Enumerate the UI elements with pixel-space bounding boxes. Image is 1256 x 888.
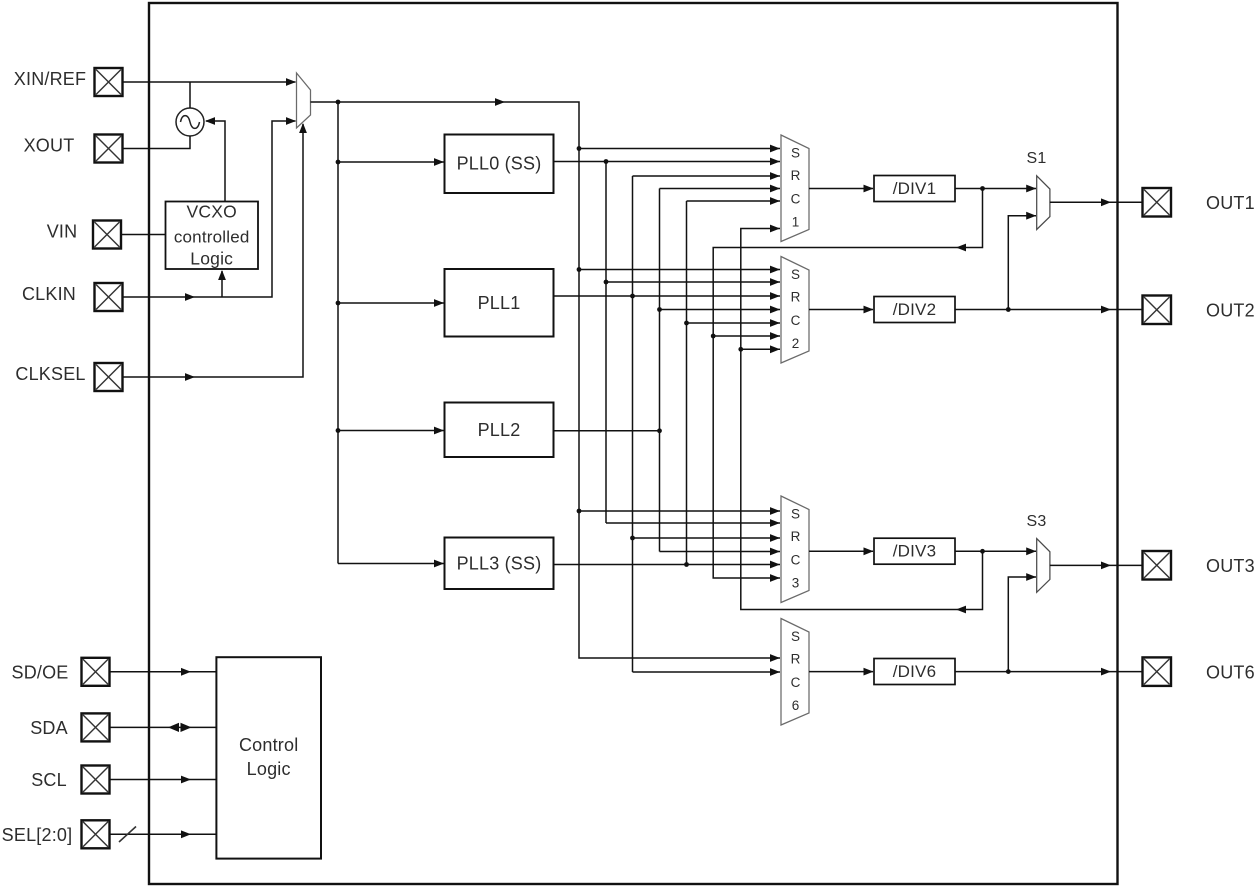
net DIV1 feedback: branch to SRC2 bbox=[713, 332, 780, 340]
svg-text:OUT6: OUT6 bbox=[1206, 662, 1255, 682]
pin OUT6 bbox=[1143, 657, 1255, 686]
wire SRC2 to /DIV2 bbox=[809, 306, 874, 314]
net PLL3 column bbox=[684, 201, 689, 565]
pin OUT3 bbox=[1143, 551, 1255, 580]
block VCXO controlled Logic bbox=[166, 202, 259, 270]
wire /DIV2 branch to S1 bbox=[1008, 212, 1036, 310]
svg-text:C: C bbox=[791, 675, 801, 690]
net REF: branch to SRC1 bbox=[579, 145, 780, 153]
wire to PLL1 input bbox=[338, 299, 444, 307]
svg-text:C: C bbox=[791, 192, 801, 207]
net PLL3 output to SRC3 bbox=[554, 561, 781, 569]
svg-text:PLL2: PLL2 bbox=[478, 420, 521, 440]
svg-text:Logic: Logic bbox=[247, 759, 291, 779]
net DIV1 feedback bbox=[711, 186, 985, 582]
svg-text:OUT3: OUT3 bbox=[1206, 556, 1255, 576]
svg-text:OUT2: OUT2 bbox=[1206, 300, 1255, 320]
net PLL0: branch to SRC3 bbox=[606, 519, 780, 527]
wire SCL to Control Logic bbox=[110, 776, 217, 784]
pin CLKIN bbox=[22, 283, 123, 311]
wire XIN branch to oscillator bbox=[189, 82, 191, 108]
block /DIV1 bbox=[874, 176, 955, 202]
svg-text:CLKSEL: CLKSEL bbox=[15, 364, 85, 384]
wire SEL[2:0] to Control Logic bbox=[110, 827, 217, 843]
wire SRC3 to /DIV3 bbox=[809, 547, 874, 555]
net PLL1: branch to SRC3 bbox=[633, 534, 781, 542]
mux S1 bbox=[1027, 150, 1050, 230]
net PLL1: branch to SRC1 bbox=[633, 172, 781, 180]
block PLL2 bbox=[445, 403, 554, 458]
wire VIN to VCXO bbox=[121, 234, 166, 236]
svg-text:SCL: SCL bbox=[31, 770, 67, 790]
pin OUT1 bbox=[1143, 188, 1255, 217]
net PLL3: branch to SRC1 bbox=[687, 197, 781, 205]
net PLL2: branch to SRC1 bbox=[660, 185, 781, 193]
pin XIN/REF bbox=[14, 68, 123, 96]
svg-text:SEL[2:0]: SEL[2:0] bbox=[2, 825, 73, 845]
pin SCL bbox=[31, 766, 109, 794]
mux SRC1 bbox=[781, 135, 809, 242]
wire S3 to OUT3 bbox=[1050, 562, 1143, 570]
svg-text:1: 1 bbox=[792, 215, 800, 230]
block PLL3 (SS) bbox=[445, 538, 554, 590]
wire SRC1 to /DIV1 bbox=[809, 185, 874, 193]
net PLL1 output to SRC2 bbox=[554, 292, 781, 300]
mux SRC6 bbox=[781, 619, 809, 726]
wire to PLL0 input bbox=[338, 158, 444, 166]
net PLL0 column bbox=[604, 162, 609, 524]
wire CLKIN to ref mux bbox=[123, 117, 297, 301]
svg-text:S: S bbox=[791, 146, 800, 161]
svg-text:PLL3 (SS): PLL3 (SS) bbox=[457, 553, 542, 573]
svg-text:SDA: SDA bbox=[30, 718, 68, 738]
pin CLKSEL bbox=[15, 363, 122, 391]
wire CLKIN branch to VCXO bbox=[218, 270, 226, 297]
wire CLKSEL to ref mux select bbox=[123, 123, 307, 381]
net PLL2: branch to SRC2 bbox=[660, 306, 781, 314]
net PLL2 output bbox=[554, 428, 662, 433]
wire /DIV2 to OUT2 bbox=[955, 306, 1143, 314]
svg-text:S: S bbox=[791, 629, 800, 644]
block /DIV2 bbox=[874, 297, 955, 323]
block Control Logic bbox=[216, 657, 321, 858]
net PLL2 column bbox=[657, 189, 662, 552]
crystal oscillator symbol bbox=[176, 108, 204, 136]
wire S1 to OUT1 bbox=[1050, 198, 1143, 206]
svg-text:XIN/REF: XIN/REF bbox=[14, 69, 86, 89]
wire XOUT to oscillator bbox=[123, 136, 191, 149]
block PLL1 bbox=[445, 269, 554, 337]
svg-text:controlled: controlled bbox=[174, 228, 250, 247]
svg-text:/DIV3: /DIV3 bbox=[893, 542, 937, 561]
svg-text:6: 6 bbox=[792, 698, 800, 713]
pin XOUT bbox=[24, 135, 123, 163]
net REF: PLL input column bbox=[336, 102, 341, 564]
wire to PLL2 input bbox=[338, 427, 444, 435]
svg-text:S1: S1 bbox=[1027, 150, 1047, 167]
svg-text:Control: Control bbox=[239, 735, 298, 755]
svg-text:C: C bbox=[791, 553, 801, 568]
net PLL0 output bbox=[554, 158, 781, 166]
wire to PLL3 input bbox=[338, 560, 444, 568]
wire /DIV6 to OUT6 bbox=[955, 668, 1143, 676]
mux SRC3 bbox=[781, 496, 809, 603]
svg-text:PLL1: PLL1 bbox=[478, 293, 521, 313]
svg-text:CLKIN: CLKIN bbox=[22, 284, 76, 304]
svg-text:XOUT: XOUT bbox=[24, 136, 75, 156]
block /DIV6 bbox=[874, 659, 955, 685]
svg-text:C: C bbox=[791, 313, 801, 328]
chip boundary bbox=[149, 3, 1118, 884]
svg-text:Logic: Logic bbox=[190, 249, 233, 269]
net PLL2: branch to SRC3 bbox=[660, 548, 781, 556]
pin VIN bbox=[47, 221, 121, 249]
svg-text:S3: S3 bbox=[1027, 513, 1047, 530]
block PLL0 (SS) bbox=[445, 135, 554, 194]
svg-text:OUT1: OUT1 bbox=[1206, 193, 1255, 213]
svg-text:/DIV6: /DIV6 bbox=[893, 662, 937, 681]
net PLL1: branch to SRC6 bbox=[633, 668, 781, 676]
wire XIN/REF to ref mux bbox=[123, 78, 297, 86]
net PLL3: branch to SRC2 bbox=[687, 319, 781, 327]
svg-text:3: 3 bbox=[792, 576, 800, 591]
svg-text:VIN: VIN bbox=[47, 222, 78, 242]
svg-text:R: R bbox=[791, 652, 801, 667]
svg-text:PLL0 (SS): PLL0 (SS) bbox=[457, 154, 542, 174]
mux SRC2 bbox=[781, 257, 809, 364]
wire /DIV1 to S1 bbox=[955, 185, 1036, 193]
net PLL0: branch to SRC2 bbox=[606, 278, 780, 286]
net REF: mux output trunk bbox=[311, 98, 781, 662]
net REF: branch to SRC3 bbox=[579, 507, 780, 515]
net REF: branch to SRC2 bbox=[579, 266, 780, 274]
wire /DIV6 branch to S3 bbox=[1008, 573, 1036, 672]
svg-text:SD/OE: SD/OE bbox=[11, 662, 68, 682]
wire SRC6 to /DIV6 bbox=[809, 668, 874, 676]
net PLL1 column bbox=[630, 176, 635, 672]
pin SD/OE bbox=[11, 658, 109, 686]
svg-text:S: S bbox=[791, 267, 800, 282]
net DIV3 feedback bbox=[738, 225, 985, 614]
input reference mux bbox=[297, 73, 311, 128]
svg-text:S: S bbox=[791, 507, 800, 522]
svg-text:VCXO: VCXO bbox=[186, 202, 236, 222]
svg-text:2: 2 bbox=[792, 336, 800, 351]
wire SD/OE to Control Logic bbox=[110, 668, 217, 676]
svg-text:R: R bbox=[791, 529, 801, 544]
block /DIV3 bbox=[874, 538, 955, 564]
pin SEL[2:0] bbox=[2, 820, 110, 848]
svg-text:/DIV2: /DIV2 bbox=[893, 300, 937, 319]
wire SDA to Control Logic (bidirectional) bbox=[110, 723, 217, 732]
wire /DIV3 to S3 bbox=[955, 547, 1036, 555]
svg-text:R: R bbox=[791, 290, 801, 305]
svg-text:R: R bbox=[791, 168, 801, 183]
net DIV3 feedback: branch to SRC2 bbox=[741, 345, 780, 353]
pin OUT2 bbox=[1143, 296, 1255, 325]
wire VCXO to oscillator control bbox=[205, 117, 225, 201]
svg-text:/DIV1: /DIV1 bbox=[893, 179, 937, 198]
pin SDA bbox=[30, 713, 109, 741]
mux S3 bbox=[1027, 513, 1050, 593]
